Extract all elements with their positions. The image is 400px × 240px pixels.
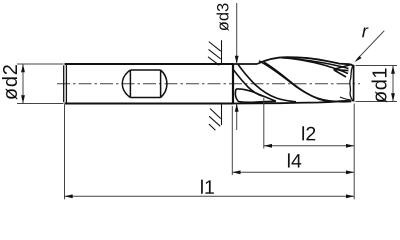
wire od1 top extension line [356, 65, 398, 67]
node od2 arrow down [21, 95, 25, 103]
wire od1 bottom extension line [356, 101, 398, 103]
wire shank chamfer line [65, 64, 67, 104]
node od3 arrow up [235, 104, 239, 112]
wire od2 dimension line [22, 64, 24, 104]
svg-text:ød1: ød1 [369, 67, 391, 103]
wire helix B [233, 69, 263, 96]
wire flute valley left closure [235, 89, 276, 102]
wire l1 dimension line [65, 195, 355, 197]
node l4 left arrow [232, 170, 240, 174]
wire od3 upper dimension line [236, 3, 238, 64]
wire helix A [238, 64, 296, 101]
dimension od1 [356, 66, 398, 102]
svg-text:ød3: ød3 [214, 3, 232, 31]
wire flat left arc [122, 70, 130, 98]
centerline [57, 83, 360, 85]
dimension od3 [236, 3, 238, 130]
wire bottom-right gash [335, 100, 351, 103]
wire end face [353, 65, 355, 102]
wire flute start edge [232, 64, 234, 104]
shank body [64, 64, 233, 104]
node od2 arrow up [21, 64, 25, 72]
wire flat left vertical edge [129, 70, 131, 98]
wire helix H6 [292, 59, 348, 74]
wire l4 left extension line [231, 106, 233, 175]
node l2 right arrow [346, 144, 354, 148]
wire od2 top extension line [17, 63, 64, 65]
node l4 right arrow [346, 170, 354, 174]
flute section silhouette [233, 57, 354, 103]
wire l4 dimension line [232, 171, 354, 173]
wire flute bottom edge [233, 101, 352, 104]
wire helix H5 [282, 58, 349, 69]
wire flat bottom edge [130, 97, 160, 99]
wire od3 lower dimension line [236, 104, 238, 131]
wire helix P1 [259, 61, 336, 102]
wire od1 dimension line [392, 66, 394, 102]
wire end tooth profile [350, 66, 353, 102]
wire shank top edge [65, 63, 234, 65]
flute helix curves [233, 58, 353, 102]
node od1 arrow up [391, 66, 395, 74]
svg-text:ød2: ød2 [0, 63, 22, 100]
node l1 right arrow [346, 194, 354, 198]
wire l1 right extension line [353, 104, 355, 200]
wire flat top edge [130, 69, 160, 71]
wire flute valley top [236, 89, 276, 101]
wire shank bottom edge [65, 103, 234, 105]
wire bottom-right tooth [340, 97, 351, 100]
wire shank left face [63, 65, 65, 102]
node clamp mark bottom [209, 104, 222, 131]
svg-text:r: r [362, 20, 369, 41]
node clamp mark top [208, 40, 222, 65]
wire end tooth T2 [334, 70, 349, 71]
wire helix P2 [264, 62, 336, 101]
wire l2 dimension line [264, 145, 354, 147]
node l1 left arrow [65, 194, 73, 198]
wire end tooth T1 [334, 65, 351, 70]
node od3 arrow down [235, 56, 239, 64]
svg-text:l2: l2 [301, 123, 316, 145]
node l2 left arrow [264, 144, 272, 148]
wire od2 bottom extension line [17, 103, 64, 105]
wire end tooth T3 [334, 70, 346, 77]
dimension od2 [17, 64, 64, 104]
node r leader arrow [354, 56, 361, 62]
wire l2 left extension line [263, 98, 265, 149]
svg-text:l4: l4 [287, 150, 302, 172]
wire flute top bulge arc [257, 57, 354, 68]
wire flat right arc [161, 70, 167, 98]
wire r leader line [357, 31, 385, 60]
svg-text:l1: l1 [200, 177, 215, 199]
node od1 arrow down [391, 93, 395, 101]
wire l1 left extension line [64, 105, 66, 200]
node weldon flat (barrel) [122, 70, 167, 98]
wire flute top flat [233, 63, 257, 65]
wire flat right vertical edge [160, 70, 162, 98]
